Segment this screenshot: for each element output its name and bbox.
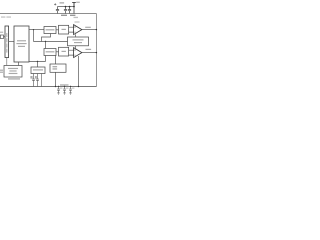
node C2 junction [65,6,67,8]
label GND left [61,15,67,16]
wire X2 to LPF2 [56,51,59,53]
label C1 value [60,2,65,4]
wire A to interface [6,58,8,66]
wire U1 to interface [18,62,20,66]
label osc symbol [53,66,58,67]
node rail junction E [55,86,56,87]
capacitor CB2 [64,86,65,87]
node riser junction [45,41,46,42]
op-amp U2 [74,25,82,35]
wire LPF1 to U2 inputs [69,27,74,32]
wire LPF2 to U3 inputs [69,50,74,55]
label below vcc wire [74,17,79,18]
label LPF2 [62,51,66,52]
node tap junction [33,29,34,30]
node VCC junction [73,6,75,8]
label CB1 value [60,88,62,89]
board border bottom (ground rail) [0,86,97,88]
label U2 plus minus [74,26,75,32]
wire U2 output [82,29,97,31]
ground CB1 [57,93,59,95]
label Y1 [33,69,43,70]
wire across to attenuator [34,41,68,43]
label interface line3 [9,73,18,74]
wire VCC down to board [73,7,75,14]
ground CB3 [69,93,71,95]
connector J1 input [0,35,3,39]
capacitor CL1 [32,74,35,87]
label CB2 value [66,88,68,89]
block X2 [44,49,56,56]
capacitor C2 [64,7,67,14]
wire A to B [9,41,14,43]
power terminal VCC [72,3,76,7]
label interface line2 [9,70,16,71]
label U1 line3 [18,46,25,47]
node bus junction [37,61,38,62]
wire E down to rail [55,72,57,86]
label inside A (vertical text) [5,33,8,37]
label attenuator line1 [73,39,84,40]
ground CB2 [63,93,65,95]
node OUT1 [96,29,97,30]
wire down to crystal [37,62,39,68]
label U1 line1 [17,40,26,41]
wire X2 down to bus [45,56,47,62]
board border top [0,13,97,15]
wire U3 output [82,52,97,54]
wire net from U1 wire down [33,30,35,42]
label CL1 [30,76,32,79]
capacitor CL2 [36,74,39,87]
label LPF1 [62,29,66,30]
node OUT2 [96,52,97,53]
capacitor CB1 [58,86,59,87]
wire supply rail [58,6,75,8]
block X1 [44,27,56,34]
label row top-left [1,16,5,17]
wire J1 to A [4,36,6,38]
label OUT1 [85,27,91,28]
plus mark C1 [54,3,56,5]
node U3 ground junction [78,86,79,87]
filter LPF2 [59,47,69,56]
wire U3 to ground rail [78,56,80,87]
label U3 plus minus [74,49,75,55]
label interface line1 [8,68,18,69]
filter LPF1 [59,25,69,34]
label left of interface [0,70,3,71]
wire attenuator up to U2 [75,34,77,37]
wire U1 to X1 [29,29,44,31]
label VCC [76,2,80,3]
label below interface [8,78,20,79]
board border right [96,14,98,87]
label CL2 [35,76,37,79]
node C3 junction [69,6,71,8]
label X1 [46,29,55,30]
wire X1 to LPF1 [56,29,59,31]
label J1 [0,32,3,33]
wire U1 bottom bus [29,61,46,63]
label GND right [70,15,75,16]
block oscillator E [50,64,66,72]
label U2 ref [75,21,80,22]
op-amp U3 [74,48,82,58]
capacitor CB3 [70,86,71,87]
block attenuator [68,37,89,46]
crystal Y1 block [31,67,45,74]
IC U1 main block [14,26,29,62]
label X2 [46,51,55,52]
connector A (header) [5,26,9,58]
interface block [4,66,22,78]
wire crystal leg3 [41,74,43,87]
capacitor C3 [68,7,71,14]
wire X2 right leg down to E [55,56,57,65]
label CB3 value [72,88,74,89]
label OUT2 [86,49,92,50]
label U1 line2 [16,43,26,44]
wire X1 bottom zigzag [42,34,51,42]
label rail [60,84,69,85]
wire riser into X2 [45,42,47,49]
label attenuator line2 [74,42,82,43]
capacitor C1 (polarized) [56,7,59,14]
wire attenuator down to U3 [75,46,77,48]
